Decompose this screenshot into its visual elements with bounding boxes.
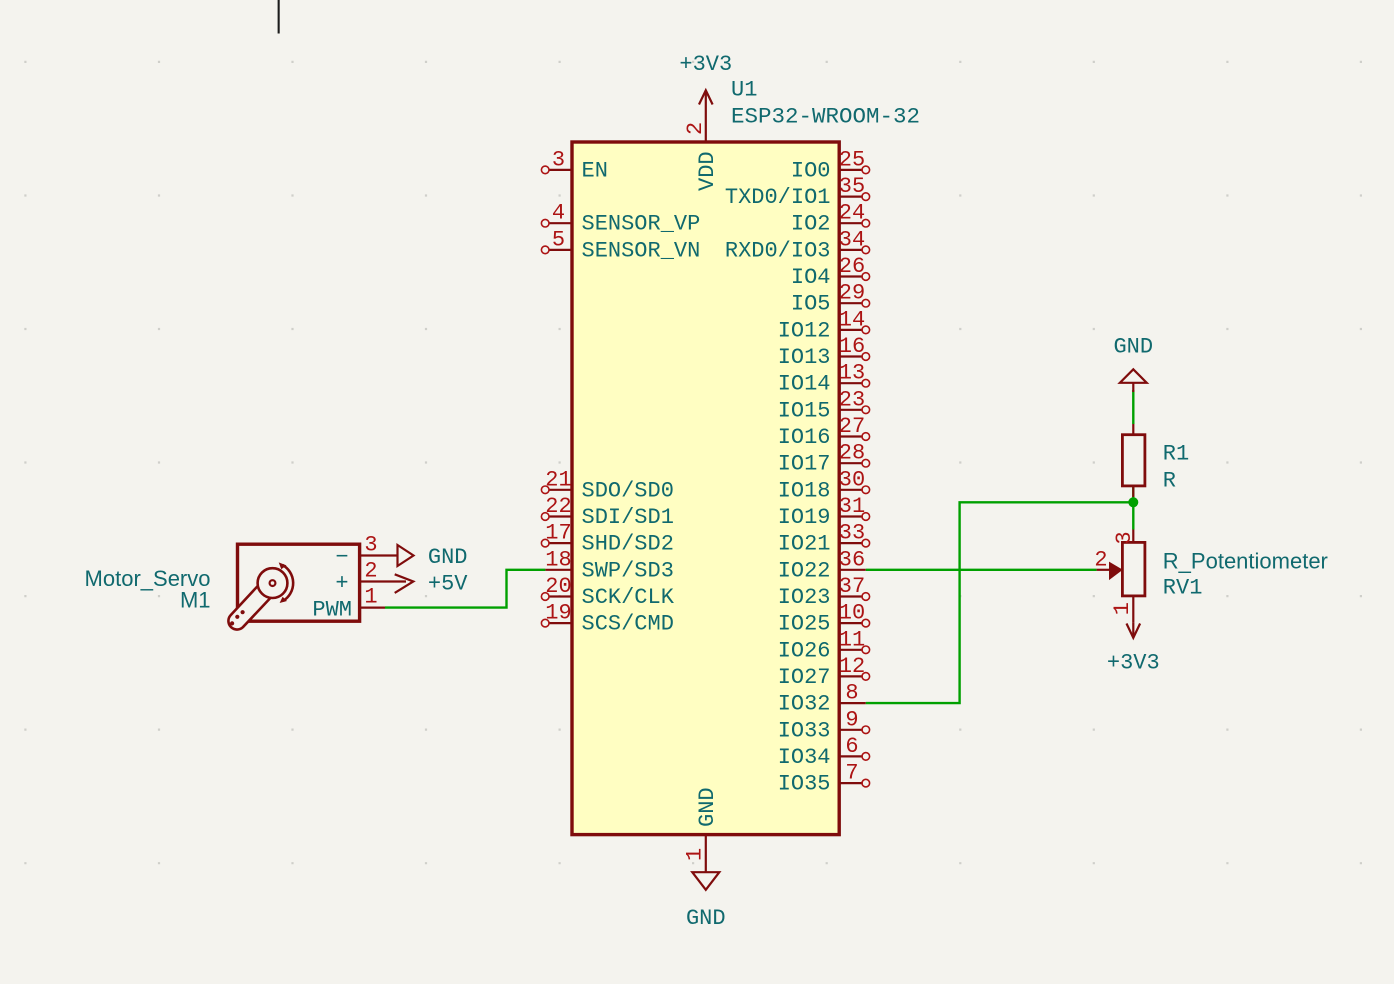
U1 pin 9 (IO33): [778, 707, 870, 743]
U1 pin 21 (SDO/SD0): [541, 467, 674, 503]
resistor R1: [1122, 424, 1145, 497]
wire GND to R1 top: [1132, 390, 1134, 424]
svg-text:21: 21: [545, 467, 571, 492]
svg-text:ESP32-WROOM-32: ESP32-WROOM-32: [731, 104, 920, 130]
svg-text:23: 23: [839, 387, 865, 412]
IC U1 body (ESP32-WROOM-32): [572, 142, 839, 835]
svg-text:GND: GND: [695, 787, 720, 827]
svg-text:2: 2: [364, 559, 377, 584]
svg-text:IO23: IO23: [778, 585, 831, 610]
U1 pin 7 (IO35): [778, 761, 870, 797]
svg-text:35: 35: [839, 174, 865, 199]
svg-text:IO12: IO12: [778, 318, 831, 343]
svg-text:5: 5: [552, 227, 565, 252]
U1 pin 4 (SENSOR_VP): [541, 201, 700, 237]
svg-text:IO13: IO13: [778, 345, 831, 370]
svg-text:25: 25: [839, 147, 865, 172]
U1 pin 35 (TXD0/IO1): [725, 174, 870, 210]
svg-text:11: 11: [839, 627, 865, 652]
svg-text:4: 4: [552, 201, 565, 226]
svg-text:TXD0/IO1: TXD0/IO1: [725, 185, 831, 210]
svg-text:37: 37: [839, 574, 865, 599]
svg-text:27: 27: [839, 414, 865, 439]
svg-text:M1: M1: [180, 588, 211, 613]
U1 pin 20 (SCK/CLK): [541, 574, 674, 610]
U1 pin 1 (GND): [683, 787, 720, 872]
svg-text:28: 28: [839, 441, 865, 466]
svg-text:R_Potentiometer: R_Potentiometer: [1163, 549, 1328, 574]
wire PWM: M1 pin1 to U1 SWP/SD3: [385, 570, 545, 608]
svg-text:IO4: IO4: [791, 265, 831, 290]
svg-text:IO17: IO17: [778, 452, 831, 477]
svg-text:34: 34: [839, 227, 865, 252]
svg-text:GND: GND: [686, 906, 726, 931]
svg-text:SDI/SD1: SDI/SD1: [582, 505, 674, 530]
svg-text:14: 14: [839, 307, 865, 332]
svg-text:20: 20: [545, 574, 571, 599]
U1 pin 6 (IO34): [778, 734, 870, 770]
svg-text:24: 24: [839, 201, 865, 226]
svg-text:12: 12: [839, 654, 865, 679]
svg-text:IO2: IO2: [791, 212, 831, 237]
svg-text:13: 13: [839, 361, 865, 386]
svg-text:IO19: IO19: [778, 505, 831, 530]
svg-text:9: 9: [845, 707, 858, 732]
svg-text:SCK/CLK: SCK/CLK: [582, 585, 675, 610]
M1 servo horn graphic: [228, 562, 293, 629]
svg-text:+5V: +5V: [428, 572, 468, 597]
U1 pin 36 (IO22): [778, 547, 866, 583]
svg-text:2: 2: [683, 122, 708, 135]
motor M1 Motor_Servo body: [238, 544, 360, 621]
U1 pin 3 (EN): [541, 147, 608, 183]
svg-text:RXD0/IO3: RXD0/IO3: [725, 238, 831, 263]
U1 pin 11 (IO26): [778, 627, 870, 663]
svg-text:1: 1: [683, 848, 708, 861]
svg-text:EN: EN: [582, 158, 608, 183]
U1 pin 28 (IO17): [778, 441, 870, 477]
U1 pin 2 (VDD): [683, 90, 720, 191]
U1 pin 30 (IO18): [778, 467, 870, 503]
svg-text:SENSOR_VN: SENSOR_VN: [582, 238, 701, 263]
U1 pin 23 (IO15): [778, 387, 870, 423]
U1 pin 33 (IO21): [778, 521, 870, 557]
U1 pin 27 (IO16): [778, 414, 870, 450]
svg-text:U1: U1: [731, 78, 757, 103]
svg-text:IO25: IO25: [778, 612, 831, 637]
svg-text:+3V3: +3V3: [1107, 651, 1160, 676]
svg-text:IO35: IO35: [778, 772, 831, 797]
power +3V3 (below RV1): [1107, 623, 1160, 676]
svg-text:19: 19: [545, 601, 571, 626]
junction node R1/RV1/IO32: [1128, 497, 1138, 507]
U1 pin 37 (IO23): [778, 574, 870, 610]
U1 pin 26 (IO4): [791, 254, 870, 290]
U1 pin 34 (RXD0/IO3): [725, 227, 870, 263]
svg-text:3: 3: [364, 533, 377, 558]
svg-text:+3V3: +3V3: [679, 52, 732, 77]
svg-text:10: 10: [839, 601, 865, 626]
svg-text:Motor_Servo: Motor_Servo: [85, 566, 211, 591]
svg-text:SDO/SD0: SDO/SD0: [582, 478, 674, 503]
U1 pin 18 (SWP/SD3): [545, 547, 674, 583]
svg-text:36: 36: [839, 547, 865, 572]
U1 pin 17 (SHD/SD2): [541, 521, 674, 557]
svg-text:RV1: RV1: [1163, 576, 1203, 601]
svg-text:26: 26: [839, 254, 865, 279]
svg-text:SCS/CMD: SCS/CMD: [582, 612, 674, 637]
svg-text:IO22: IO22: [778, 558, 831, 583]
svg-text:1: 1: [364, 585, 377, 610]
svg-text:1: 1: [1110, 602, 1135, 615]
M1 pin 3 (-): [335, 533, 413, 571]
svg-text:SWP/SD3: SWP/SD3: [582, 558, 674, 583]
potentiometer RV1: [1122, 530, 1145, 623]
svg-text:IO18: IO18: [778, 478, 831, 503]
U1 pin 29 (IO5): [791, 281, 870, 317]
M1 pin 2 (+): [335, 559, 413, 597]
svg-text:17: 17: [545, 521, 571, 546]
svg-text:GND: GND: [428, 545, 468, 570]
svg-text:IO33: IO33: [778, 718, 831, 743]
RV1 pin 2 wiper: [1094, 548, 1122, 581]
svg-text:+: +: [335, 571, 348, 596]
svg-text:R1: R1: [1163, 442, 1189, 467]
U1 pin 13 (IO14): [778, 361, 870, 397]
svg-text:29: 29: [839, 281, 865, 306]
U1 pin 10 (IO25): [778, 601, 870, 637]
svg-text:IO14: IO14: [778, 372, 831, 397]
svg-text:IO34: IO34: [778, 745, 831, 770]
svg-text:R: R: [1163, 469, 1176, 494]
wire R1 bottom to RV1 pin3: [1132, 486, 1134, 530]
svg-text:6: 6: [845, 734, 858, 759]
svg-text:3: 3: [1112, 531, 1137, 544]
svg-text:7: 7: [845, 761, 858, 786]
U1 pin 31 (IO19): [778, 494, 870, 530]
svg-text:IO26: IO26: [778, 638, 831, 663]
svg-text:31: 31: [839, 494, 865, 519]
svg-text:PWM: PWM: [312, 598, 352, 623]
power +3V3 (top): [679, 52, 732, 105]
svg-text:IO21: IO21: [778, 532, 831, 557]
U1 pin 8 (IO32): [778, 681, 866, 717]
svg-text:IO27: IO27: [778, 665, 831, 690]
svg-text:IO5: IO5: [791, 292, 831, 317]
svg-text:VDD: VDD: [695, 151, 720, 191]
U1 pin 19 (SCS/CMD): [541, 601, 674, 637]
U1 pin 12 (IO27): [778, 654, 870, 690]
svg-text:IO32: IO32: [778, 692, 831, 717]
M1 pin 1 (PWM): [312, 585, 385, 623]
U1 pin 24 (IO2): [791, 201, 870, 237]
svg-text:−: −: [335, 545, 348, 570]
U1 pin 16 (IO13): [778, 334, 870, 370]
U1 pin 22 (SDI/SD1): [541, 494, 674, 530]
svg-text:16: 16: [839, 334, 865, 359]
svg-text:18: 18: [545, 547, 571, 572]
wire IO22: U1 pin36 to RV1 wiper: [866, 569, 1097, 571]
svg-text:SHD/SD2: SHD/SD2: [582, 532, 674, 557]
U1 pin 5 (SENSOR_VN): [541, 227, 700, 263]
svg-text:IO16: IO16: [778, 425, 831, 450]
svg-text:22: 22: [545, 494, 571, 519]
U1 pin 14 (IO12): [778, 307, 870, 343]
svg-text:SENSOR_VP: SENSOR_VP: [582, 212, 701, 237]
ground (bottom): [686, 872, 726, 931]
svg-text:8: 8: [845, 681, 858, 706]
svg-text:33: 33: [839, 521, 865, 546]
svg-text:3: 3: [552, 147, 565, 172]
wire IO32: U1 pin8 to vertical bus: [866, 502, 1134, 703]
svg-text:30: 30: [839, 467, 865, 492]
svg-text:IO0: IO0: [791, 158, 831, 183]
ground (above R1): [1113, 335, 1153, 393]
svg-text:2: 2: [1094, 548, 1107, 573]
U1 pin 25 (IO0): [791, 147, 870, 183]
svg-text:IO15: IO15: [778, 398, 831, 423]
svg-text:GND: GND: [1113, 335, 1153, 360]
